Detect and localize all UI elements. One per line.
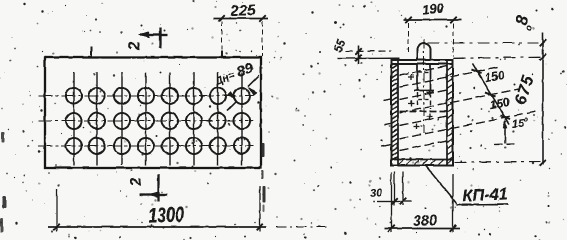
svg-text:89: 89 xyxy=(235,60,255,80)
svg-text:o: o xyxy=(523,116,529,123)
svg-text:2: 2 xyxy=(126,40,144,51)
svg-text:2: 2 xyxy=(127,176,145,187)
svg-text:8: 8 xyxy=(511,13,532,27)
svg-text:190: 190 xyxy=(421,0,445,17)
svg-text:30: 30 xyxy=(369,187,383,200)
svg-text:150: 150 xyxy=(483,67,505,84)
svg-text:1300: 1300 xyxy=(148,203,185,228)
svg-text:380: 380 xyxy=(412,213,437,230)
svg-text:675: 675 xyxy=(511,72,538,107)
svg-text:КП-41: КП-41 xyxy=(461,185,508,205)
svg-text:225: 225 xyxy=(229,1,257,19)
svg-text:Дн=: Дн= xyxy=(212,69,236,88)
svg-text:150: 150 xyxy=(488,94,510,111)
